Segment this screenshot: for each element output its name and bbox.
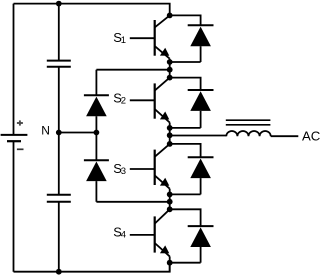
node S4 emitter — [167, 260, 173, 266]
svg-text:S3: S3 — [113, 161, 126, 177]
node S4 collector — [167, 206, 173, 212]
wire clamp upper to S1-S2 midpoint — [96, 69, 169, 71]
wire neutral to clamp diodes — [59, 132, 97, 134]
wire S2-S3 column — [169, 123, 171, 144]
node clamp diode junction — [94, 130, 100, 136]
node bottom rail capacitor bus junction — [56, 269, 62, 275]
label + (battery positive) — [17, 120, 23, 125]
node clamp upper junction — [167, 67, 173, 73]
diode D2 antiparallel of S2 — [188, 90, 214, 128]
wire D2 cathode link — [170, 78, 201, 90]
wire D4 cathode link — [170, 209, 201, 226]
wire D1 anode link — [170, 61, 201, 63]
wire D3 cathode link — [170, 144, 201, 157]
capacitor C1 — [47, 61, 71, 67]
wire output node to inductor — [170, 135, 227, 137]
transistor S3 — [130, 144, 170, 189]
wire D2 anode link — [170, 127, 201, 129]
diode D3 antiparallel of S3 — [188, 157, 214, 194]
node S3 emitter — [167, 192, 173, 198]
wire left DC bus lower — [13, 141, 15, 272]
wire capacitor bus upper — [58, 4, 60, 61]
svg-text:N: N — [41, 124, 50, 138]
node S3 collector — [167, 141, 173, 147]
svg-text:S2: S2 — [113, 91, 126, 107]
wire bottom rail — [14, 263, 170, 272]
diode D5 upper clamp — [84, 70, 109, 133]
wire capacitor bus middle — [58, 67, 60, 195]
svg-text:AC: AC — [302, 129, 320, 144]
wire inductor to AC terminal — [271, 135, 299, 137]
capacitor C2 — [47, 195, 71, 202]
diode D4 antiparallel of S4 — [188, 226, 214, 263]
svg-text:S4: S4 — [113, 224, 126, 240]
wire S1-S2 column — [169, 59, 171, 78]
node S1 emitter — [167, 59, 173, 65]
node AC output junction — [167, 132, 173, 138]
node S1 collector — [167, 13, 173, 19]
wire D3 anode link — [170, 193, 201, 195]
DC source V1 battery — [1, 135, 28, 141]
transistor S1 — [130, 15, 170, 58]
wire D4 anode link — [170, 262, 201, 264]
label - (battery negative) — [17, 148, 24, 150]
node clamp lower junction — [167, 199, 173, 205]
wire S4 emitter column — [169, 256, 171, 271]
wire top rail — [14, 4, 170, 16]
wire D1 cathode link — [170, 15, 201, 25]
diode D1 antiparallel of S1 — [188, 25, 214, 62]
node S2 emitter — [167, 125, 173, 131]
wire capacitor bus lower — [58, 202, 60, 272]
node N junction on capacitor bus — [56, 130, 62, 136]
transistor S4 — [130, 209, 170, 256]
node top rail capacitor bus junction — [56, 1, 62, 7]
diode D6 lower clamp — [84, 133, 109, 202]
wire S3-S4 column — [169, 189, 171, 210]
inductor L1 — [226, 120, 271, 136]
transistor S2 — [130, 78, 170, 123]
node S2 collector — [167, 75, 173, 81]
wire clamp lower to S3-S4 midpoint — [96, 201, 169, 203]
svg-text:S1: S1 — [113, 30, 126, 46]
wire left DC bus upper — [13, 4, 15, 135]
